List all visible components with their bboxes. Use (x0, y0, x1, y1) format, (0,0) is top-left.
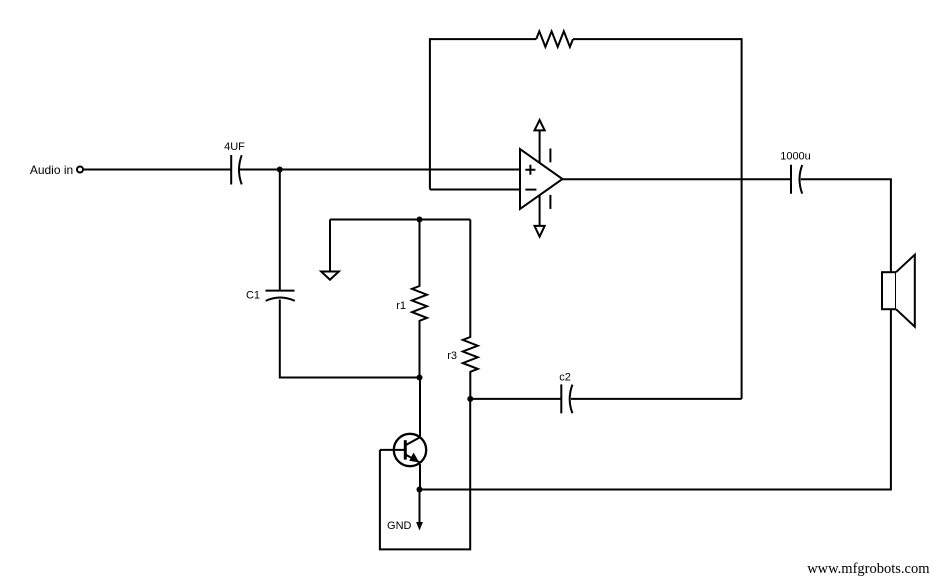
resistor feedback top (536, 31, 573, 47)
capacitor c2 plates (561, 384, 572, 413)
wire C1 down and right to r1 bottom (280, 300, 420, 378)
svg-text:r3: r3 (447, 350, 457, 362)
transistor Q1 base wire (380, 449, 405, 451)
node junction r1 bottom (417, 375, 423, 381)
op-amp U1 power up pin (539, 130, 541, 162)
capacitor C-4UF plates (231, 155, 242, 185)
capacitor C1 plates (266, 291, 295, 301)
wire 1000u to speaker (801, 179, 891, 272)
wire feedback box base to r3 bottom (380, 399, 470, 550)
op-amp U1 triangle (520, 149, 563, 209)
wire c2 to feedback vertical (571, 398, 742, 400)
transistor Q1 emitter line (406, 455, 421, 463)
ground GND arrow (419, 490, 421, 523)
speaker LS1 (882, 272, 896, 309)
node junction r1 top (417, 217, 423, 223)
resistor r3 (463, 220, 478, 399)
resistor r1 (412, 220, 427, 378)
wire feedback top right and right vertical (573, 39, 742, 399)
transistor Q1 base bar (404, 440, 407, 459)
transistor Q1 emitter arrow (409, 453, 419, 463)
svg-text:r1: r1 (396, 300, 406, 312)
op-amp U1 power down pin (539, 195, 541, 226)
svg-text:GND: GND (387, 520, 412, 532)
node junction after 4UF (277, 167, 283, 173)
svg-text:www.mfgrobots.com: www.mfgrobots.com (807, 561, 930, 577)
wire op-amp output to 1000u cap (563, 178, 792, 180)
wire input horizontal to op-amp + (84, 169, 520, 171)
wire top rail ground to r3 (330, 219, 470, 221)
wire r3 junction to c2 (470, 398, 561, 400)
transistor Q1 circle (394, 434, 426, 466)
node junction emitter (417, 487, 423, 493)
op-amp U1 power down bar (549, 195, 551, 209)
ground arrow left (329, 220, 331, 272)
svg-text:C1: C1 (246, 290, 260, 302)
op-amp U1 power up bar (549, 149, 551, 163)
svg-text:1000u: 1000u (780, 151, 811, 163)
node junction r3 bottom (467, 396, 473, 402)
capacitor C-1000u plates (791, 165, 802, 194)
node Audio in terminal (77, 167, 83, 173)
transistor Q1 collector line (406, 437, 421, 445)
wire speaker down to bottom rail (420, 309, 891, 489)
wire emitter down to junction (419, 464, 421, 490)
svg-text:4UF: 4UF (224, 141, 245, 153)
wire r1 junction down to collector (419, 378, 421, 438)
wire feedback left vertical and minus input (430, 39, 536, 189)
op-amp U1 plus sign (525, 165, 535, 175)
op-amp U1 minus sign (525, 189, 536, 191)
svg-text:Audio in: Audio in (30, 163, 73, 177)
svg-text:c2: c2 (559, 372, 571, 384)
wire junction down to C1 (279, 170, 281, 291)
